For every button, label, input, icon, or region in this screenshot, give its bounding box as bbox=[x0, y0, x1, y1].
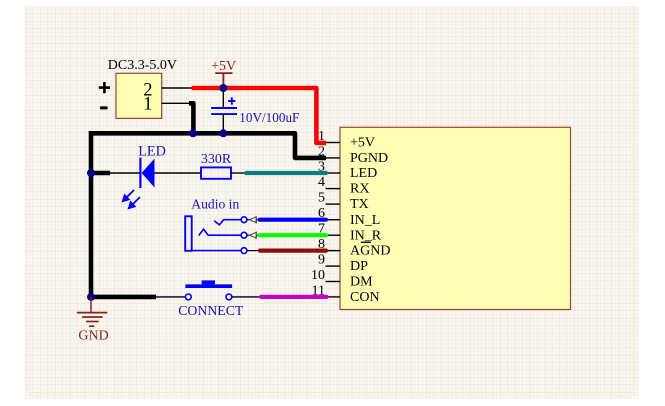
LED D1 bbox=[123, 158, 155, 209]
wire: button to magenta bbox=[232, 296, 262, 298]
overbar on G of AGND bbox=[361, 241, 371, 243]
pin 1 stub bbox=[326, 142, 341, 144]
plus polarity mark bbox=[99, 82, 110, 93]
svg-text:5: 5 bbox=[318, 191, 325, 206]
jack pin circle sleeve bbox=[241, 248, 247, 254]
wire: AGND dark red bbox=[260, 249, 326, 253]
pin 8 stub bbox=[326, 250, 341, 252]
svg-text:+5V: +5V bbox=[211, 59, 236, 74]
IC U1 body bbox=[340, 127, 571, 309]
jack sleeve contact bbox=[192, 250, 241, 252]
jack body bbox=[185, 216, 192, 251]
svg-text:RX: RX bbox=[350, 182, 369, 197]
svg-text:CONNECT: CONNECT bbox=[178, 303, 244, 318]
pin 2 stub bbox=[326, 157, 341, 159]
jack ring contact bbox=[199, 229, 241, 235]
pin 7 stub bbox=[326, 234, 341, 236]
wire: left vertical bus bbox=[91, 131, 156, 297]
input arrow IN_R bbox=[250, 232, 257, 239]
svg-text:+5V: +5V bbox=[350, 136, 375, 151]
svg-text:IN_L: IN_L bbox=[350, 213, 380, 228]
svg-text:10: 10 bbox=[311, 268, 325, 283]
svg-text:1: 1 bbox=[143, 94, 152, 114]
wire: IN_L blue bbox=[260, 218, 327, 222]
wire: cap bottom vertical bbox=[222, 115, 224, 134]
wire: thin to button left bbox=[156, 296, 185, 298]
wire: cap top vertical bbox=[222, 88, 224, 107]
pin 11 stub bbox=[326, 296, 341, 298]
pin 5 stub bbox=[326, 203, 341, 205]
wire: +5V thick red bbox=[192, 88, 326, 143]
wire: thin IN_R bbox=[247, 234, 260, 236]
input arrow IN_L bbox=[250, 216, 257, 223]
pin 10 stub bbox=[326, 281, 341, 283]
wire: connector pin1 stub bbox=[162, 102, 190, 104]
junction dot GND bbox=[87, 293, 95, 301]
wire: LED row thick stub bbox=[91, 171, 110, 176]
wire: resistor to teal bbox=[231, 172, 246, 174]
pin 3 stub bbox=[326, 172, 341, 174]
connector J1 body bbox=[116, 73, 162, 118]
svg-text:DM: DM bbox=[350, 275, 373, 290]
svg-text:TX: TX bbox=[350, 197, 369, 212]
svg-text:CON: CON bbox=[350, 290, 380, 305]
+5V power port bbox=[211, 59, 236, 88]
svg-text:LED: LED bbox=[138, 144, 166, 160]
minus polarity mark bbox=[100, 106, 108, 109]
jack pin circle IN_L bbox=[241, 217, 247, 223]
pin 6 stub bbox=[326, 219, 341, 221]
IC pin stubs bbox=[326, 143, 341, 297]
wire: thick black bus to PGND bbox=[91, 133, 326, 158]
jack pin circle IN_R bbox=[241, 232, 247, 238]
wire: thick black elbow pin1 to bus bbox=[189, 103, 193, 133]
svg-text:LED: LED bbox=[350, 166, 377, 181]
svg-text:GND: GND bbox=[78, 329, 108, 344]
junction dot bus cap bbox=[219, 129, 227, 137]
svg-text:9: 9 bbox=[318, 253, 325, 268]
junction dot on red wire bbox=[219, 84, 227, 92]
ground symbol bbox=[77, 297, 108, 326]
junction dot LED row bbox=[87, 169, 95, 177]
wire: LED to resistor bbox=[155, 172, 202, 174]
svg-text:330R: 330R bbox=[201, 152, 232, 167]
svg-text:Audio in: Audio in bbox=[191, 197, 239, 212]
pin 9 stub bbox=[326, 265, 341, 267]
pin 4 stub bbox=[326, 188, 341, 190]
wire: IN_R green bbox=[260, 233, 327, 237]
svg-text:DC3.3-5.0V: DC3.3-5.0V bbox=[108, 58, 177, 73]
wire: thin IN_L bbox=[247, 219, 260, 221]
pushbutton S1 bbox=[185, 280, 232, 299]
audio jack J2 bbox=[185, 216, 241, 251]
svg-text:PGND: PGND bbox=[350, 151, 388, 166]
svg-text:4: 4 bbox=[318, 175, 325, 190]
svg-text:IN_R: IN_R bbox=[350, 228, 382, 243]
wire: CON magenta bbox=[261, 295, 327, 299]
IC pin names bbox=[350, 136, 390, 305]
wire: thin to LED bbox=[110, 172, 140, 174]
IC pin numbers bbox=[311, 129, 325, 298]
svg-text:DP: DP bbox=[350, 259, 368, 274]
wire: teal LED net bbox=[246, 171, 326, 175]
jack tip contact bbox=[214, 220, 241, 225]
capacitor C1 bbox=[211, 97, 237, 114]
wire: thin AGND bbox=[247, 250, 261, 252]
wire: connector pin2 stub bbox=[162, 87, 192, 89]
svg-text:10V/100uF: 10V/100uF bbox=[239, 110, 299, 125]
junction dot bus left bbox=[189, 129, 197, 137]
resistor R1 330R bbox=[201, 167, 231, 178]
svg-text:AGND: AGND bbox=[350, 244, 390, 259]
